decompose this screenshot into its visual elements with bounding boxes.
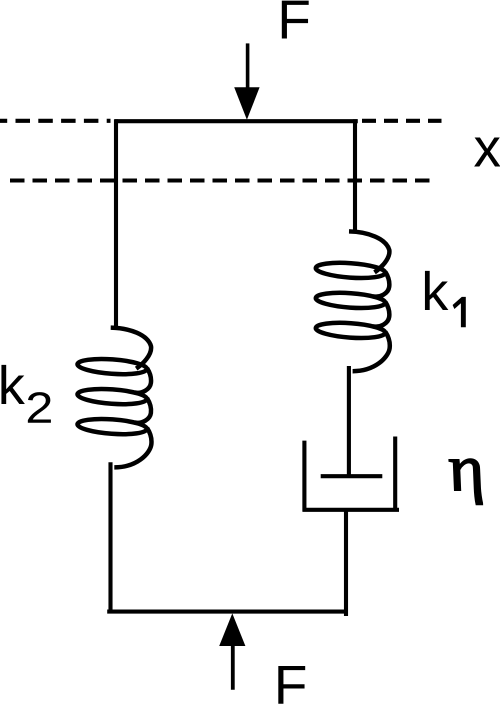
label k1 subscript 1	[453, 297, 466, 327]
spring k1 entry curve	[349, 231, 389, 272]
dashpot cylinder bottom	[303, 508, 400, 512]
label k2 subscript 2	[28, 392, 51, 423]
wire: left branch upper vertical (spring k2 top lead)	[114, 119, 118, 327]
dashed reference line (lower, displaced position)	[10, 178, 435, 182]
spring k2	[77, 328, 152, 468]
spring k2 entry curve	[111, 328, 151, 369]
dashpot cylinder left wall	[302, 441, 306, 512]
wire: spring k1 lower lead / dashpot piston rod	[347, 366, 351, 476]
wire: right branch upper vertical (spring k1 top lead)	[353, 119, 357, 231]
spring k1 coil loop 3	[315, 321, 385, 340]
label k1	[425, 271, 448, 310]
spring k2 coil connector 2	[135, 398, 151, 423]
dashpot cylinder right wall	[393, 437, 397, 512]
spring k1 exit curve	[353, 332, 390, 371]
spring k2 coil connector 1	[135, 368, 151, 393]
dashed reference line (upper, undeformed position) left part	[0, 119, 111, 123]
spring k1	[315, 231, 390, 371]
spring k2 exit curve	[114, 428, 151, 467]
spring k2 coil loop 3	[77, 417, 147, 436]
top rail (loading bar)	[115, 119, 358, 123]
force arrow F (top, pointing down)	[234, 43, 259, 119]
spring k1 coil connector 1	[373, 272, 389, 297]
spring k2 coil loop 2	[77, 387, 147, 406]
dashpot piston plate	[321, 474, 383, 478]
force arrow F (bottom, pointing up)	[219, 613, 245, 689]
wire: dashpot lower lead	[344, 510, 348, 616]
dashed reference line (upper, undeformed position) right part	[362, 119, 442, 123]
wire: spring k2 lower lead / left branch lower vertical	[108, 462, 112, 613]
label k2	[1, 365, 24, 404]
spring k1 coil loop 2	[315, 291, 385, 310]
label x (displacement)	[474, 137, 500, 166]
spring k2 coil loop 1	[77, 357, 147, 376]
label F (bottom force)	[278, 666, 305, 704]
label eta (dashpot viscosity coefficient)	[449, 459, 482, 505]
label F (top force)	[282, 1, 309, 39]
bottom rail	[107, 610, 347, 614]
spring k1 coil connector 2	[373, 302, 389, 327]
spring k1 coil loop 1	[315, 261, 385, 280]
